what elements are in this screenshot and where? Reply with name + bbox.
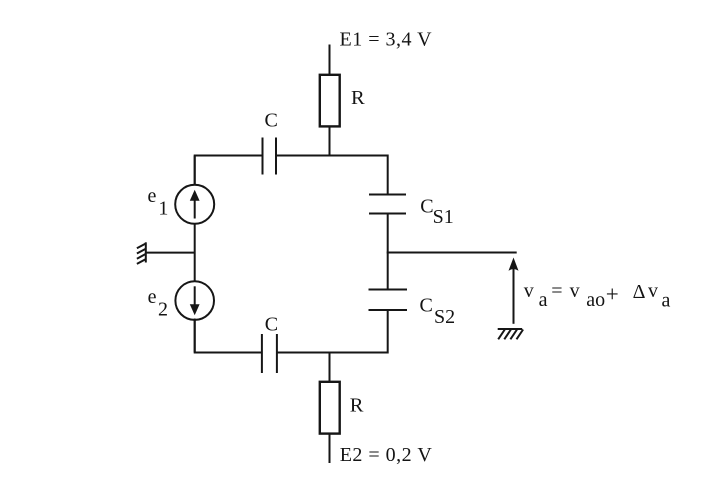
wire top-right horizontal with corner down to CS1 — [276, 156, 388, 195]
wire resistor R2 to E2 terminal — [329, 434, 331, 464]
capacitor CS2 bottom plate — [369, 309, 408, 311]
svg-text:Δ: Δ — [633, 281, 646, 303]
svg-text:e: e — [148, 185, 157, 207]
ground stub wire (left) — [146, 252, 195, 254]
wire E1 terminal to resistor R (top) — [329, 45, 331, 77]
wire junction to resistor R2 (bottom) — [329, 353, 331, 383]
svg-text:ao: ao — [586, 289, 605, 311]
wire resistor R1 to top node — [329, 127, 331, 156]
ground symbol (left) hatch 1 — [137, 244, 146, 249]
svg-text:=: = — [551, 280, 562, 302]
svg-text:a: a — [662, 289, 671, 311]
ground symbol (right) hatch 1 — [498, 330, 505, 340]
capacitor C (top) left plate — [262, 138, 264, 175]
capacitor C (top) right plate — [275, 138, 277, 175]
ground symbol (right) hatch 2 — [504, 330, 511, 340]
current source e1 circle — [175, 185, 214, 224]
wire left branch top to e1 — [194, 156, 196, 186]
wire bottom-left horizontal with corner to left branch — [195, 319, 262, 353]
wire e2 to bottom wire — [194, 320, 196, 353]
resistor R2 (bottom) — [320, 382, 340, 434]
svg-text:R: R — [350, 395, 364, 417]
resistor R1 (top) — [320, 75, 340, 127]
wire node A down to CS2 — [387, 253, 389, 290]
ground symbol (right) top bar — [498, 328, 523, 330]
capacitor C (bottom) right plate — [276, 334, 278, 373]
svg-text:2: 2 — [158, 298, 168, 320]
svg-text:C: C — [420, 294, 433, 316]
svg-text:S2: S2 — [434, 306, 455, 328]
svg-text:v: v — [524, 280, 534, 302]
wire e1 to e2 — [194, 224, 196, 281]
ground symbol (left) hatch 2 — [137, 249, 146, 254]
svg-text:C: C — [265, 110, 278, 132]
svg-text:R: R — [351, 87, 365, 109]
svg-text:e: e — [148, 286, 157, 308]
current source e2 arrow tail — [194, 286, 196, 305]
capacitor C (bottom) left plate — [261, 334, 263, 373]
svg-text:+: + — [606, 281, 619, 306]
capacitor CS1 top plate — [369, 194, 406, 196]
ground symbol (left) hatch 4 — [137, 259, 146, 264]
wire CS2 down with corner to bottom wire — [277, 310, 388, 353]
current source e2 circle — [175, 281, 214, 320]
svg-text:E1 = 3,4 V: E1 = 3,4 V — [340, 29, 433, 51]
ground symbol (right) hatch 3 — [510, 330, 517, 340]
ground symbol (left) bar — [145, 242, 147, 262]
svg-text:a: a — [539, 289, 548, 311]
current source e1 arrow tail — [194, 199, 196, 219]
wire CS1 to node A — [387, 214, 389, 253]
svg-text:v: v — [648, 280, 658, 302]
wire node A horizontal to output — [387, 252, 517, 254]
current source e1 arrowhead — [190, 190, 200, 201]
ground symbol (left) hatch 3 — [137, 254, 146, 259]
ground symbol (right) hatch 4 — [517, 330, 524, 340]
svg-text:E2 = 0,2 V: E2 = 0,2 V — [340, 444, 433, 466]
capacitor CS1 bottom plate — [369, 213, 406, 215]
svg-text:S1: S1 — [433, 206, 454, 228]
current source e2 arrowhead — [190, 304, 200, 315]
output arrow va tail — [513, 266, 515, 324]
svg-text:C: C — [265, 314, 278, 336]
wire top-left horizontal with corner to left branch — [195, 156, 263, 185]
svg-text:v: v — [570, 280, 580, 302]
output arrow va arrowhead — [509, 258, 519, 271]
capacitor CS2 top plate — [369, 289, 408, 291]
svg-text:1: 1 — [158, 198, 168, 220]
